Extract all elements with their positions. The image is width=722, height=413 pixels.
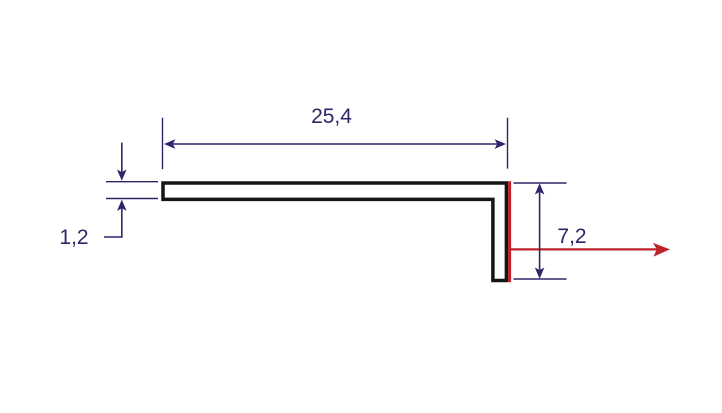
svg-text:25,4: 25,4 [311,105,352,128]
svg-text:1,2: 1,2 [59,226,88,249]
svg-text:7,2: 7,2 [557,225,586,248]
